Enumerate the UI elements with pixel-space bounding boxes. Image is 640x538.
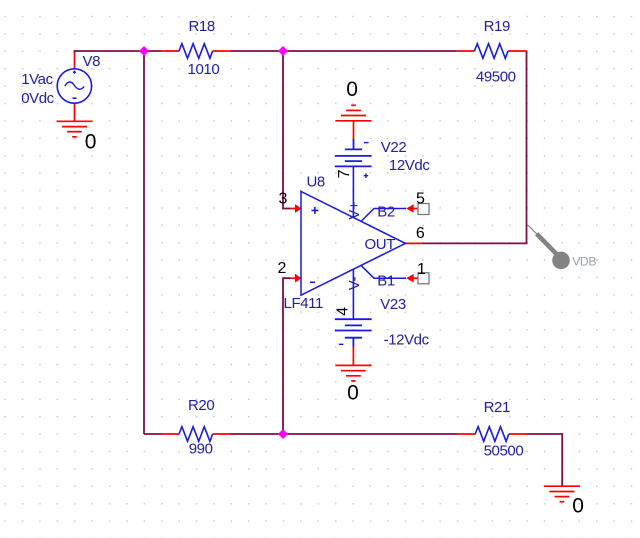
- svg-text:LF411: LF411: [284, 295, 323, 312]
- svg-text:50500: 50500: [484, 443, 524, 460]
- svg-text:VDB: VDB: [572, 255, 596, 269]
- svg-text:49500: 49500: [476, 68, 516, 85]
- svg-text:-12Vdc: -12Vdc: [384, 332, 430, 349]
- svg-text:5: 5: [416, 190, 425, 207]
- svg-text:OUT: OUT: [365, 236, 396, 253]
- svg-text:R20: R20: [188, 397, 214, 414]
- svg-text:V22: V22: [381, 139, 407, 156]
- svg-text:1010: 1010: [188, 61, 220, 78]
- svg-text:B1: B1: [377, 272, 395, 289]
- svg-text:U8: U8: [307, 174, 325, 191]
- svg-text:R18: R18: [189, 18, 215, 35]
- svg-text:4: 4: [334, 307, 351, 316]
- svg-text:990: 990: [189, 441, 213, 458]
- svg-text:V+: V+: [346, 201, 363, 220]
- svg-text:7: 7: [336, 169, 353, 178]
- svg-text:12Vdc: 12Vdc: [389, 157, 430, 174]
- svg-text:6: 6: [416, 225, 425, 242]
- svg-text:0: 0: [347, 381, 359, 404]
- svg-text:B2: B2: [377, 203, 395, 220]
- svg-text:1Vac: 1Vac: [21, 71, 53, 88]
- svg-text:V-: V-: [346, 277, 363, 291]
- svg-text:R21: R21: [484, 399, 510, 416]
- svg-text:R19: R19: [484, 18, 510, 35]
- svg-text:0: 0: [85, 130, 97, 153]
- svg-text:V8: V8: [83, 53, 101, 70]
- svg-text:V23: V23: [380, 296, 406, 313]
- svg-text:2: 2: [278, 260, 287, 277]
- svg-text:0: 0: [572, 495, 584, 518]
- svg-text:0Vdc: 0Vdc: [21, 90, 54, 107]
- svg-text:1: 1: [417, 261, 426, 278]
- svg-text:3: 3: [279, 191, 288, 208]
- svg-text:0: 0: [346, 78, 358, 101]
